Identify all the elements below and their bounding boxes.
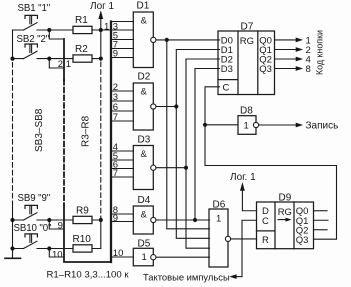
wire: D8 input from V5 bbox=[205, 124, 238, 126]
wire: SB2 row y=58.6 bbox=[13, 58, 101, 60]
svg-text:7: 7 bbox=[113, 112, 118, 123]
wire: line1 jog from SB1 into left bus bbox=[49, 30, 64, 39]
svg-text:Лог. 1: Лог. 1 bbox=[230, 172, 256, 183]
svg-text:R10: R10 bbox=[73, 234, 92, 245]
wire: D7 output Q0 with arrow bbox=[275, 39, 297, 41]
wire: D1 output to D7 D0 bbox=[156, 39, 220, 41]
svg-text:D8: D8 bbox=[240, 106, 253, 117]
svg-text:SB9 "9": SB9 "9" bbox=[18, 193, 51, 204]
wire: group bus left vertical solid top bbox=[63, 39, 65, 80]
svg-text:R1–R10 3,3...100 к: R1–R10 3,3...100 к bbox=[47, 270, 130, 281]
gate D8 (inverter, write pulse) bbox=[238, 116, 256, 135]
arrowhead: Лог. 1 at D9 bbox=[240, 182, 245, 191]
wire: D3 input stubs bbox=[111, 151, 133, 177]
resistor R1 bbox=[73, 26, 92, 33]
svg-text:D2: D2 bbox=[138, 72, 151, 83]
gate D3 (4-input NAND) bbox=[133, 146, 153, 190]
wire: D7 output Q2 with arrow bbox=[275, 58, 297, 60]
svg-text:&: & bbox=[141, 86, 148, 97]
pushbutton SB9 bbox=[24, 205, 38, 220]
svg-text:Запись: Запись bbox=[306, 121, 339, 132]
wire: V1 vertical D1-out down to D6 input 2 bbox=[167, 40, 210, 229]
wire: line2 jog from SB2 into left bus bbox=[49, 59, 64, 68]
gate D2 (4-input NAND) bbox=[133, 83, 153, 130]
svg-text:1: 1 bbox=[142, 252, 147, 263]
svg-text:D9: D9 bbox=[279, 192, 292, 203]
arrowhead: Тактовые импульсы bbox=[229, 274, 236, 279]
gate D1 (5-input NAND) bbox=[133, 12, 153, 68]
arrowhead: D7 Q2 out bbox=[296, 57, 303, 62]
wire: line10 jog from SB10 into left bus bbox=[49, 249, 64, 258]
svg-text:D4: D4 bbox=[138, 195, 151, 206]
arrowhead: RG shift arrow in D9 bbox=[286, 218, 292, 222]
wire: SB9 row y=220 bbox=[13, 219, 101, 221]
svg-text:C: C bbox=[223, 82, 230, 93]
svg-text:D5: D5 bbox=[138, 239, 151, 250]
svg-text:RG: RG bbox=[240, 36, 254, 47]
wire: D5 input stub bbox=[111, 256, 133, 258]
svg-text:D7: D7 bbox=[241, 21, 254, 32]
svg-text:9: 9 bbox=[113, 213, 118, 224]
wire: clock line to D9 C input and Тактовые импульсы bbox=[242, 220, 257, 276]
wire: D6 output to D9 R input bbox=[231, 238, 257, 240]
wire: D9 Q1 stub bbox=[314, 219, 329, 221]
pushbutton SB2 bbox=[24, 44, 38, 59]
svg-text:&: & bbox=[141, 149, 148, 160]
gate D5 (inverter) bbox=[133, 248, 153, 265]
svg-text:Q3: Q3 bbox=[259, 64, 272, 75]
gate D6 (5-input NOR) bbox=[209, 209, 228, 267]
svg-text:R9: R9 bbox=[76, 206, 89, 217]
wire: SB1 row y=30 bbox=[13, 29, 134, 31]
node: logic-1 rail top segment with arrow bbox=[100, 19, 102, 59]
resistor R10 bbox=[73, 245, 92, 252]
wire: line9 jog from SB9 into left bus bbox=[49, 220, 64, 229]
arrowhead: D7 Q3 out bbox=[296, 66, 303, 71]
svg-text:R: R bbox=[262, 235, 269, 246]
wire: D3 output to V3 bbox=[156, 167, 186, 169]
register D7 bbox=[218, 31, 275, 95]
junction dots bbox=[10, 57, 14, 61]
svg-text:D6: D6 bbox=[213, 199, 226, 210]
gate D4 (2-input NAND) bbox=[133, 206, 153, 234]
wire: RG shift arrow line in D9 bbox=[278, 219, 287, 221]
svg-text:1: 1 bbox=[244, 120, 249, 131]
svg-text:Тактовые импульсы: Тактовые импульсы bbox=[143, 272, 230, 283]
wire: D4 output through V4 to D6 input 1 bbox=[156, 219, 210, 221]
wire: V3 vertical D7-D2 row down to D6 input 4 bbox=[186, 59, 220, 248]
wire: D2 input stubs bbox=[111, 91, 133, 121]
svg-text:D3: D3 bbox=[138, 135, 151, 146]
svg-text:2: 2 bbox=[58, 59, 63, 70]
svg-text:D1: D1 bbox=[137, 1, 150, 12]
wire: V5 vertical D7-C / D8 tap / feedback from D9 Q3 bbox=[205, 87, 337, 239]
resistor R2 bbox=[73, 55, 92, 62]
wire: D5 output to D6 input 5 bbox=[156, 256, 210, 258]
arrowhead: Запись out bbox=[296, 123, 303, 128]
wire: D9 Q0 stub bbox=[314, 210, 328, 212]
svg-text:Код кнопки: Код кнопки bbox=[314, 30, 324, 75]
svg-text:10: 10 bbox=[52, 250, 63, 261]
arrowhead: D7 Q0 out bbox=[296, 38, 303, 43]
svg-text:8: 8 bbox=[306, 64, 311, 75]
wire: group bus right vertical thick bbox=[110, 22, 112, 263]
svg-text:&: & bbox=[141, 16, 148, 27]
svg-text:SB1 "1": SB1 "1" bbox=[18, 3, 51, 14]
wire: D7 output Q3 with arrow bbox=[275, 68, 297, 70]
pushbutton SB1 bbox=[24, 15, 38, 30]
svg-text:10: 10 bbox=[113, 248, 124, 259]
svg-text:C: C bbox=[262, 216, 269, 227]
wire: group bus left vertical solid bottom + bottom run bbox=[64, 205, 111, 262]
wire: logic-1 rail dashed middle (omitted R3-R8) bbox=[100, 62, 102, 217]
svg-text:1: 1 bbox=[66, 59, 71, 70]
wire: left common rail dashed (omitted SB3-SB8) bbox=[12, 63, 14, 204]
wire: D4 input stubs bbox=[111, 214, 133, 222]
svg-text:R3–R8: R3–R8 bbox=[81, 115, 92, 147]
svg-text:SB2 "2": SB2 "2" bbox=[17, 34, 50, 45]
svg-text:R1: R1 bbox=[75, 15, 88, 26]
svg-text:SB10 "0": SB10 "0" bbox=[14, 223, 53, 234]
ground: common bar bottom-left bbox=[5, 257, 21, 259]
svg-text:9: 9 bbox=[113, 49, 118, 60]
wire: D8 output to Запись arrow bbox=[259, 124, 297, 126]
svg-text:SB3–SB8: SB3–SB8 bbox=[34, 108, 45, 152]
svg-text:Лог 1: Лог 1 bbox=[90, 1, 115, 12]
register D9 bbox=[257, 202, 314, 249]
wire: SB10 row y=248.5 bbox=[13, 248, 101, 250]
pushbutton SB10 bbox=[24, 234, 38, 249]
arrowhead: Лог 1 top bbox=[98, 10, 103, 19]
svg-text:RG: RG bbox=[278, 207, 292, 218]
wire: V4 vertical D7-D3 row down to D4 output junction bbox=[195, 69, 220, 221]
svg-text:D3: D3 bbox=[221, 64, 233, 75]
resistor R9 bbox=[73, 216, 92, 223]
wire: D1 input stubs bbox=[111, 22, 133, 58]
wire: D7 output Q1 with arrow bbox=[275, 49, 297, 51]
svg-text:R2: R2 bbox=[75, 44, 88, 55]
wire: left common rail solid top (SB1 to SB2) bbox=[12, 30, 14, 59]
wire: logic-1 rail solid bottom R9-R10 bbox=[92, 217, 101, 249]
wire: group bus left vertical dashed middle bbox=[63, 80, 65, 205]
wire: D9 Q2 stub bbox=[314, 229, 328, 231]
svg-text:1: 1 bbox=[216, 213, 221, 224]
svg-text:&: & bbox=[141, 210, 148, 221]
wire: D9 D input from Log.1 arrow bbox=[242, 191, 256, 211]
arrowhead: D7 Q1 out bbox=[296, 47, 303, 52]
svg-text:9: 9 bbox=[58, 221, 63, 232]
svg-text:Q3: Q3 bbox=[296, 235, 309, 246]
wire: D2 output to V2 bbox=[156, 106, 176, 108]
svg-text:7: 7 bbox=[113, 168, 118, 179]
svg-text:1: 1 bbox=[104, 21, 109, 32]
wire: V2 vertical D7-D1 row down to D6 input 3 bbox=[176, 50, 219, 239]
wire: left common rail solid bottom (SB9,SB10 to ground) bbox=[12, 203, 14, 258]
